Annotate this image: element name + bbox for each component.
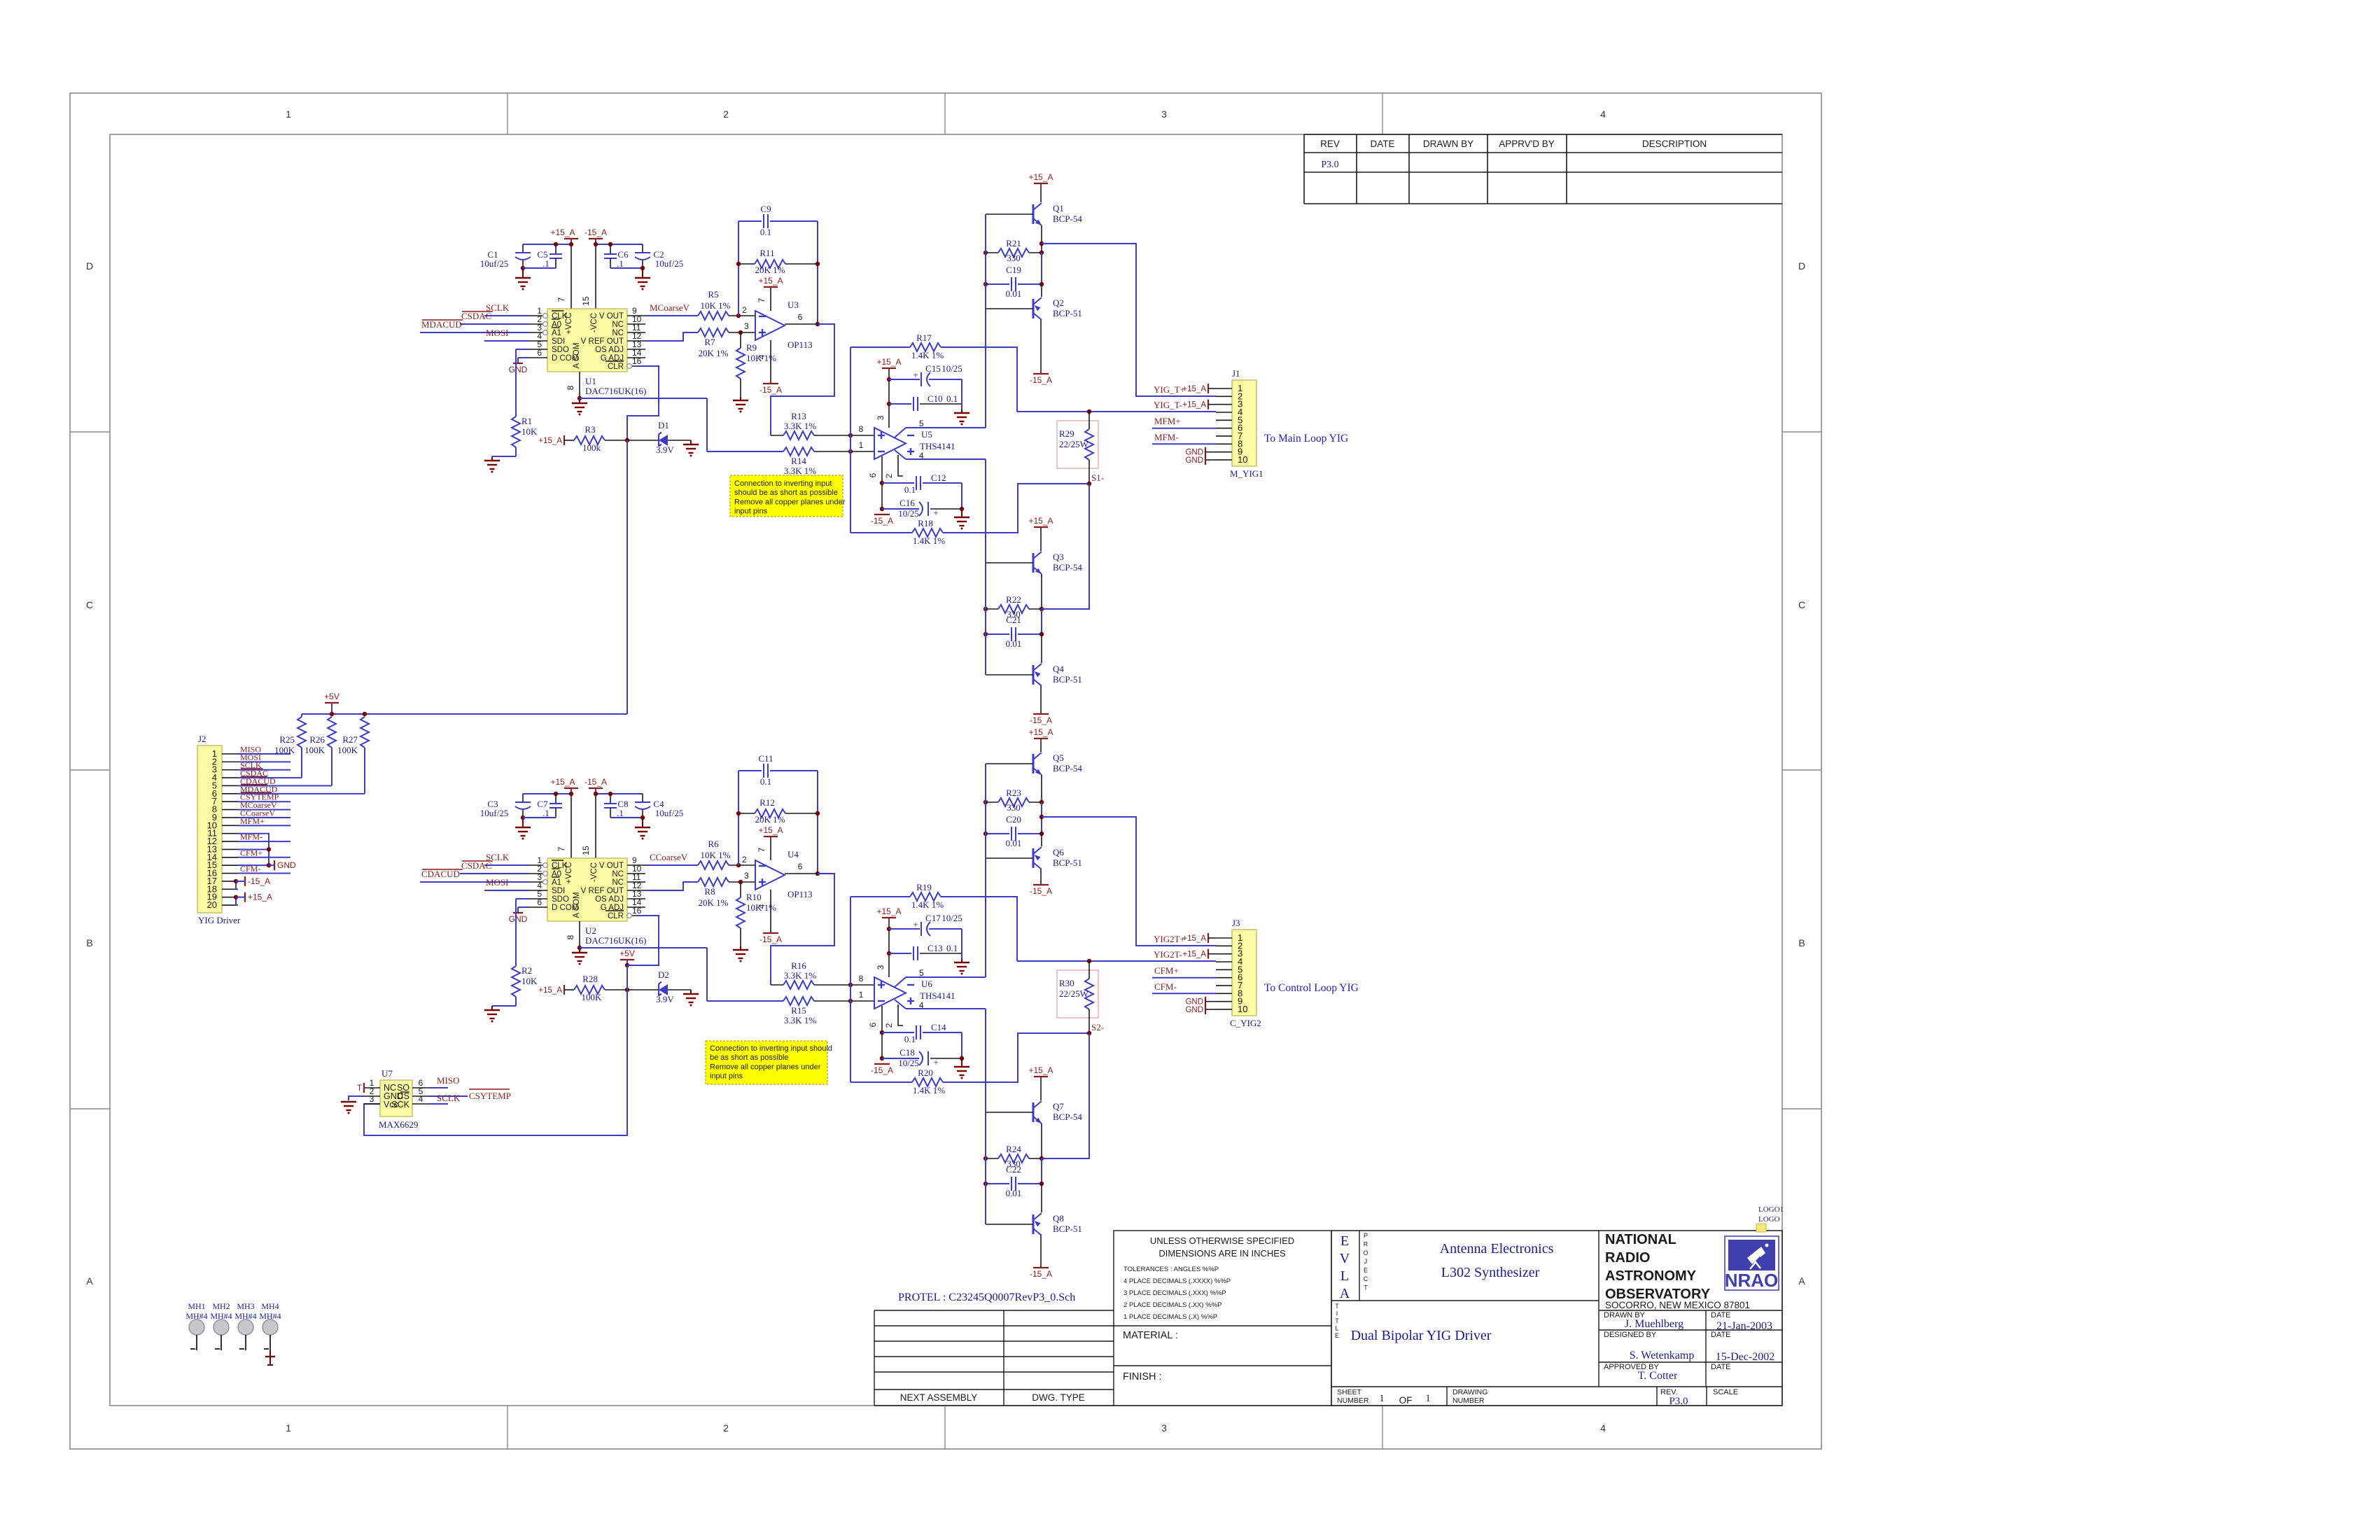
svg-text:+: + (933, 507, 938, 518)
wire CLR (627, 366, 659, 440)
power +15_A with C17 C13 (888, 918, 890, 977)
power port +5V (325, 702, 339, 703)
svg-text:10K: 10K (521, 426, 538, 437)
svg-text:R23: R23 (1006, 787, 1021, 798)
svg-text:J. Muehlberg: J. Muehlberg (1625, 1318, 1683, 1330)
svg-text:R2: R2 (521, 965, 532, 976)
svg-text:To Main Loop YIG: To Main Loop YIG (1264, 433, 1348, 444)
svg-text:10: 10 (1238, 1004, 1247, 1014)
svg-text:CFM+: CFM+ (1154, 965, 1179, 976)
wire emitter chain mid (1041, 802, 1042, 834)
svg-text:8: 8 (859, 974, 864, 983)
svg-text:.1: .1 (542, 258, 549, 269)
capacitor C19 0.01 (986, 283, 1009, 285)
svg-text:GND: GND (277, 860, 296, 870)
svg-text:C17: C17 (925, 913, 941, 923)
svg-text:A: A (1798, 1275, 1805, 1287)
op-amp U4 OP113 (755, 860, 785, 890)
svg-text:10K 1%: 10K 1% (701, 300, 731, 311)
svg-text:OP113: OP113 (787, 889, 813, 899)
wire +15 decoupling bus (523, 793, 571, 794)
svg-text:D: D (86, 260, 93, 272)
svg-text:7: 7 (556, 297, 566, 302)
svg-text:V OUT: V OUT (599, 312, 624, 321)
svg-text:C20: C20 (1006, 814, 1021, 825)
svg-text:YIG2T-: YIG2T- (1154, 949, 1182, 960)
capacitor C11 0.1 (feedback) (738, 770, 762, 771)
pin8 stub + ground (A COM) (579, 372, 580, 398)
capacitor C18 10/25 (882, 1058, 919, 1059)
svg-text:20K 1%: 20K 1% (699, 897, 729, 908)
svg-text:1 PLACE DECIMALS (.X) %%P: 1 PLACE DECIMALS (.X) %%P (1123, 1313, 1217, 1321)
svg-text:C21: C21 (1006, 615, 1021, 625)
capacitor C17 10/25 (889, 928, 920, 930)
svg-text:Q8: Q8 (1053, 1213, 1064, 1224)
wire pin4 output to lower bases (906, 1008, 986, 1009)
wire +15 decoupling bus (523, 244, 571, 245)
capacitor C21 0.01 (986, 633, 1009, 635)
svg-text:Q6: Q6 (1053, 847, 1064, 857)
svg-text:be as short as possible: be as short as possible (710, 1053, 789, 1062)
svg-text:SHEET: SHEET (1337, 1388, 1362, 1396)
wire U7 GND (349, 1096, 364, 1100)
svg-text:CCoarseV: CCoarseV (650, 852, 688, 862)
capacitor C5 (555, 244, 556, 253)
wire base chain vertical (985, 764, 986, 977)
wire feedback right / output (817, 221, 818, 324)
svg-text:1: 1 (859, 990, 864, 1000)
svg-text:6: 6 (868, 472, 878, 477)
svg-text:7: 7 (556, 846, 566, 851)
power port +15_A (R28) (563, 985, 565, 995)
capacitor C2 (642, 244, 643, 252)
svg-text:APPRV'D BY: APPRV'D BY (1499, 139, 1555, 149)
wire J2 pin10 MFM+ (238, 825, 290, 826)
svg-text:MOSI: MOSI (486, 877, 509, 888)
svg-text:Q5: Q5 (1053, 752, 1064, 763)
svg-text:1.4K 1%: 1.4K 1% (911, 899, 944, 910)
capacitor C12 0.1 (882, 482, 914, 484)
svg-text:.1: .1 (542, 808, 549, 818)
wire Q5 base (986, 763, 1033, 764)
svg-text:3 PLACE DECIMALS (.XXX) %%P: 3 PLACE DECIMALS (.XXX) %%P (1123, 1289, 1226, 1297)
svg-text:MDACUD: MDACUD (421, 319, 462, 330)
svg-text:Q1: Q1 (1053, 203, 1064, 213)
svg-text:A: A (86, 1275, 93, 1287)
wire J2 pin12 MFM- (238, 841, 290, 842)
wire Q3 base (986, 562, 1033, 563)
svg-text:THS4141: THS4141 (920, 990, 955, 1001)
wire pin4 output to lower bases (906, 458, 986, 460)
power port +15_A (J1 pin3) (1207, 400, 1209, 409)
wire U7 CSYTEMP (428, 1095, 468, 1097)
wire emitter chain lower (1041, 1184, 1042, 1212)
wire VOCM cap ground (961, 483, 962, 509)
wire emitter chain upper (1041, 225, 1042, 253)
unless otherwise specified box (1114, 1231, 1331, 1406)
svg-text:1: 1 (859, 440, 864, 450)
capacitor C22 0.01 (986, 1183, 1009, 1184)
resistor R18 1.4K 1% (-feedback) (850, 435, 851, 533)
svg-text:V REF OUT: V REF OUT (581, 887, 624, 895)
svg-text:MH1: MH1 (188, 1301, 205, 1311)
svg-text:10K 1%: 10K 1% (701, 850, 731, 860)
diff amp U6 THS4141 (874, 977, 906, 1009)
wire emitter chain mid (1041, 253, 1042, 284)
svg-text:NUMBER: NUMBER (1452, 1396, 1485, 1405)
svg-text:R11: R11 (759, 248, 774, 258)
svg-text:R19: R19 (916, 882, 932, 892)
svg-text:+15_A: +15_A (538, 437, 562, 445)
svg-text:4: 4 (419, 1094, 423, 1104)
svg-text:RADIO: RADIO (1605, 1250, 1650, 1266)
svg-text:+15_A: +15_A (1182, 385, 1206, 393)
wire pin7 riser (570, 794, 572, 858)
svg-text:16: 16 (632, 356, 642, 366)
wire J2 pin16 CFM- (238, 873, 290, 874)
svg-text:4: 4 (757, 904, 766, 909)
power +15_A (op-amp pin7) (770, 836, 771, 860)
svg-text:5: 5 (919, 419, 924, 428)
transistor Q4 BCP-51 (1032, 665, 1035, 685)
svg-text:+15_A: +15_A (1028, 172, 1053, 182)
svg-text:UNLESS OTHERWISE SPECIFIED: UNLESS OTHERWISE SPECIFIED (1150, 1235, 1294, 1246)
svg-text:CSYTEMP: CSYTEMP (469, 1091, 511, 1101)
svg-text:MFM-: MFM- (1154, 432, 1179, 442)
svg-text:DAC716UK(16): DAC716UK(16) (585, 935, 646, 946)
svg-text:R20: R20 (918, 1067, 933, 1078)
capacitor C4 (642, 794, 643, 801)
zener diode D1 3.9V (627, 440, 659, 441)
svg-text:C15: C15 (925, 363, 941, 374)
svg-text:10: 10 (1238, 454, 1247, 465)
svg-text:PROTEL : C23245Q0007RevP3_0.S: PROTEL : C23245Q0007RevP3_0.Sch (898, 1291, 1075, 1303)
power resistor R29 22/25W (1057, 421, 1098, 468)
diff amp U5 THS4141 (874, 428, 906, 459)
svg-text:MH4: MH4 (261, 1301, 279, 1311)
connector J1 (M_YIG1) (1232, 380, 1256, 466)
svg-text:E: E (1340, 1233, 1349, 1249)
power port +15_A (J3 pin1) (1207, 933, 1209, 943)
svg-text:Remove all copper planes under: Remove all copper planes under (710, 1063, 821, 1071)
zener diode D2 3.9V (627, 989, 659, 990)
svg-text:MFM+: MFM+ (240, 816, 265, 826)
wire base chain vertical (985, 459, 986, 675)
next assembly table (874, 1310, 1114, 1311)
wire J2 gnd pins 11,13,15 (238, 834, 269, 865)
wire cap ground (961, 379, 962, 409)
svg-text:T: T (1335, 1303, 1339, 1310)
svg-text:3.3K 1%: 3.3K 1% (784, 465, 816, 476)
svg-text:GND: GND (1185, 1006, 1203, 1014)
svg-text:1: 1 (286, 108, 291, 120)
svg-text:SCLK: SCLK (437, 1093, 461, 1103)
capacitor C15 10/25 (889, 379, 920, 380)
wire J2 pin1 MISO (238, 753, 290, 755)
resistor R8 20K 1% (698, 878, 729, 886)
svg-text:+15_A: +15_A (1182, 951, 1206, 959)
svg-text:D1: D1 (658, 420, 669, 430)
wire pin5 output to upper bases (906, 427, 986, 428)
svg-text:B: B (86, 937, 92, 948)
svg-text:DATE: DATE (1711, 1311, 1731, 1319)
svg-text:3: 3 (1161, 108, 1167, 120)
wire cap ground (961, 929, 962, 959)
svg-text:J3: J3 (1232, 918, 1240, 928)
svg-text:OF: OF (1399, 1395, 1413, 1406)
resistor R20 1.4K 1% (-feedback) (850, 985, 851, 1082)
svg-text:R1: R1 (521, 416, 532, 426)
transistor Q7 BCP-54 (1032, 1102, 1035, 1122)
svg-text:MH3: MH3 (237, 1301, 254, 1311)
svg-text:330: 330 (1007, 253, 1021, 263)
svg-text:8: 8 (859, 424, 864, 434)
svg-text:M_YIG1: M_YIG1 (1230, 468, 1263, 479)
wire sense to lower emitters (1042, 1033, 1089, 1158)
svg-text:A COM: A COM (573, 892, 581, 918)
svg-text:10uf/25: 10uf/25 (655, 258, 683, 269)
wire MFM+ (1152, 428, 1216, 429)
wire emitter chain upper (1041, 775, 1042, 802)
capacitor C1 (522, 244, 524, 252)
transistor Q8 BCP-51 (1032, 1214, 1035, 1234)
svg-text:SCALE: SCALE (1713, 1388, 1738, 1396)
svg-text:C: C (86, 599, 93, 610)
svg-text:L: L (1340, 1268, 1349, 1284)
svg-text:T: T (1335, 1317, 1339, 1324)
svg-text:BCP-51: BCP-51 (1053, 674, 1082, 685)
svg-text:CFM-: CFM- (1154, 981, 1177, 992)
svg-text:6: 6 (868, 1022, 878, 1027)
resistor R19 1.4K 1% (+feedback) (850, 896, 910, 897)
svg-text:2 PLACE DECIMALS (.XX) %%P: 2 PLACE DECIMALS (.XX) %%P (1123, 1301, 1221, 1309)
wire feedback right / output (817, 771, 818, 874)
wire MOSI (484, 890, 529, 891)
svg-text:MCoarseV: MCoarseV (650, 302, 690, 313)
svg-text:10/25: 10/25 (898, 1058, 919, 1068)
wire -15 decoupling bus (596, 244, 643, 245)
svg-text:DWG. TYPE: DWG. TYPE (1032, 1392, 1085, 1403)
svg-text:Connection to inverting input: Connection to inverting input (734, 479, 832, 488)
svg-text:NATIONAL: NATIONAL (1605, 1232, 1676, 1247)
power port T (U7 pin1) (363, 1083, 365, 1093)
wire pin7 riser (570, 244, 572, 309)
svg-text:+VCC: +VCC (565, 313, 573, 335)
svg-text:GND: GND (1185, 449, 1203, 457)
power port +15_A (Q5) (1040, 738, 1042, 752)
svg-text:MISO: MISO (437, 1075, 460, 1086)
svg-text:-15_A: -15_A (1030, 1269, 1052, 1279)
svg-text:SOCORRO, NEW MEXICO 87801: SOCORRO, NEW MEXICO 87801 (1605, 1300, 1750, 1310)
wire J2 pin7 CSYTEMP (238, 801, 290, 802)
svg-text:100K: 100K (274, 745, 295, 755)
wire J2 pin4 CSDAC (238, 777, 302, 778)
resistor R12 20K 1% (feedback) (738, 813, 755, 814)
svg-text:CLR: CLR (608, 363, 624, 371)
wire pin15 riser (595, 244, 596, 309)
wire CCoarseV (DAC V OUT) (645, 864, 698, 866)
resistor R11 20K 1% (feedback) (738, 263, 755, 265)
resistor R21 330 (986, 252, 998, 253)
svg-text:Q2: Q2 (1053, 297, 1064, 308)
svg-text:C_YIG2: C_YIG2 (1230, 1018, 1261, 1028)
svg-text:DRAWING: DRAWING (1452, 1388, 1487, 1396)
capacitor C14 0.1 (882, 1032, 914, 1033)
wire output to YIG_T+ (1039, 241, 1044, 246)
svg-text:MFM+: MFM+ (1154, 416, 1181, 426)
svg-text:U2: U2 (585, 925, 596, 936)
resistor R26 100K (331, 716, 332, 717)
svg-text:CSDAC: CSDAC (461, 311, 491, 321)
svg-text:4 PLACE DECIMALS (.XXXX) %%P: 4 PLACE DECIMALS (.XXXX) %%P (1123, 1277, 1231, 1285)
svg-text:R21: R21 (1006, 238, 1021, 248)
svg-text:3.3K 1%: 3.3K 1% (784, 970, 816, 981)
svg-text:22/25W: 22/25W (1059, 439, 1089, 449)
wire Q2 base (986, 308, 1033, 309)
svg-text:BCP-54: BCP-54 (1053, 562, 1082, 573)
svg-text:20K 1%: 20K 1% (755, 265, 785, 275)
power port GND (J3 pin10) (1205, 1004, 1206, 1014)
node S2- (1087, 1031, 1091, 1035)
wire feedback left (738, 771, 739, 865)
svg-text:+15_A: +15_A (758, 825, 783, 835)
svg-text:100k: 100k (582, 442, 601, 453)
svg-text:3: 3 (744, 321, 749, 331)
svg-text:R9: R9 (746, 342, 757, 353)
svg-text:S. Wetenkamp: S. Wetenkamp (1630, 1350, 1695, 1361)
svg-text:1.4K 1%: 1.4K 1% (911, 350, 944, 360)
svg-text:3: 3 (876, 965, 885, 969)
svg-text:6: 6 (537, 348, 542, 358)
svg-text:0.1: 0.1 (760, 227, 771, 237)
power port GND (J1 pin10) (1205, 455, 1206, 465)
svg-text:+15_A: +15_A (538, 986, 562, 995)
svg-text:B: B (1798, 937, 1805, 948)
svg-text:20: 20 (207, 899, 217, 910)
wire U7 SCLK (428, 1103, 448, 1105)
connector J3 (C_YIG2) (1232, 930, 1256, 1016)
transistor Q5 BCP-54 (1032, 754, 1035, 773)
svg-text:GND: GND (509, 914, 528, 924)
svg-text:0.1: 0.1 (760, 776, 771, 787)
svg-text:R: R (1364, 1240, 1368, 1247)
svg-text:-15_A: -15_A (1030, 886, 1052, 896)
wire MDACUD (420, 332, 529, 333)
wire A COM to inverting network (580, 398, 707, 399)
resistor R9 10K 1% (740, 332, 741, 348)
svg-text:+15_A: +15_A (1028, 1065, 1053, 1075)
svg-text:+15_A: +15_A (1182, 934, 1206, 943)
svg-text:GND: GND (1185, 998, 1203, 1007)
svg-text:DIMENSIONS ARE IN INCHES: DIMENSIONS ARE IN INCHES (1158, 1248, 1286, 1259)
svg-text:R3: R3 (584, 424, 595, 435)
svg-text:1.4K 1%: 1.4K 1% (913, 535, 945, 546)
svg-text:REV: REV (1320, 139, 1340, 149)
svg-text:R10: R10 (746, 892, 762, 902)
svg-text:+5V: +5V (324, 692, 339, 701)
svg-text:J2: J2 (198, 734, 206, 744)
power -15_A (op-amp pin4) (770, 890, 771, 933)
node S1- (1087, 482, 1091, 486)
svg-text:DATE: DATE (1711, 1331, 1731, 1339)
power port GND (J2) (274, 860, 275, 870)
svg-text:C14: C14 (931, 1022, 946, 1032)
svg-text:NUMBER: NUMBER (1337, 1396, 1369, 1405)
svg-text:NC: NC (612, 321, 624, 329)
resistor R27 100K (360, 717, 369, 748)
svg-text:BCP-51: BCP-51 (1053, 857, 1082, 868)
ground MH4 (269, 1350, 271, 1357)
svg-text:+: + (933, 1057, 938, 1067)
wire -15 decoupling bus (596, 793, 643, 794)
transistor Q1 BCP-54 (1032, 204, 1035, 224)
svg-text:R26: R26 (309, 734, 325, 745)
svg-text:R13: R13 (791, 411, 806, 421)
svg-text:R25: R25 (279, 734, 295, 745)
power port +15_A (Q7) (1040, 1077, 1042, 1100)
svg-text:7: 7 (757, 847, 766, 852)
svg-text:+15_A: +15_A (876, 906, 901, 916)
wire CFM+ (1152, 977, 1216, 979)
svg-text:YIG Driver: YIG Driver (198, 915, 241, 925)
resistor R22 330 (986, 608, 998, 610)
svg-text:+15_A: +15_A (550, 777, 575, 787)
svg-text:-15_A: -15_A (584, 777, 607, 787)
svg-text:YIG_T+: YIG_T+ (1154, 384, 1185, 395)
wire Q8 base (986, 1224, 1033, 1225)
capacitor C16 10/25 (882, 508, 919, 510)
wire CSDAC (460, 323, 529, 325)
svg-text:P3.0: P3.0 (1669, 1396, 1688, 1407)
svg-text:-15_A: -15_A (871, 516, 893, 526)
svg-text:C: C (1798, 599, 1805, 610)
svg-text:2: 2 (723, 1422, 729, 1434)
svg-text:E: E (1364, 1267, 1368, 1274)
svg-text:GND: GND (509, 365, 528, 374)
svg-text:SDI: SDI (552, 337, 565, 346)
svg-text:.1: .1 (617, 808, 624, 818)
resistor R25 100K (301, 714, 302, 717)
svg-text:J1: J1 (1232, 368, 1240, 379)
wire CDACUD (420, 881, 529, 883)
svg-text:0.1: 0.1 (904, 484, 916, 495)
power port +15_A (R3) (563, 435, 565, 445)
svg-text:should be as short as possible: should be as short as possible (734, 489, 838, 497)
wire CSDAC (460, 873, 529, 874)
svg-text:C13: C13 (927, 943, 943, 953)
wire J2 -15_A pins 17,18 (236, 881, 238, 882)
svg-text:SDO: SDO (552, 895, 569, 904)
transistor Q2 BCP-51 (1032, 299, 1035, 318)
svg-text:10/25: 10/25 (941, 363, 962, 374)
svg-text:R29: R29 (1059, 428, 1074, 439)
svg-text:Q3: Q3 (1053, 552, 1064, 562)
svg-text:GND: GND (1185, 456, 1203, 465)
svg-text:0.1: 0.1 (946, 943, 958, 953)
svg-text:R15: R15 (791, 1005, 806, 1016)
wire J2 pin14 CFM+ (238, 857, 290, 858)
temperature sensor U7 MAX6629 (380, 1080, 412, 1116)
wire J2 pin9 CCoarseV (238, 817, 290, 818)
svg-text:3: 3 (370, 1094, 374, 1104)
svg-text:0.1: 0.1 (904, 1034, 916, 1044)
power port -15_A (Q4) (1040, 686, 1042, 714)
svg-text:R18: R18 (918, 518, 933, 528)
svg-text:6: 6 (537, 897, 542, 907)
svg-text:MATERIAL :: MATERIAL : (1123, 1330, 1178, 1341)
resistor R6 10K 1% (698, 861, 729, 869)
svg-text:A1: A1 (552, 878, 561, 887)
